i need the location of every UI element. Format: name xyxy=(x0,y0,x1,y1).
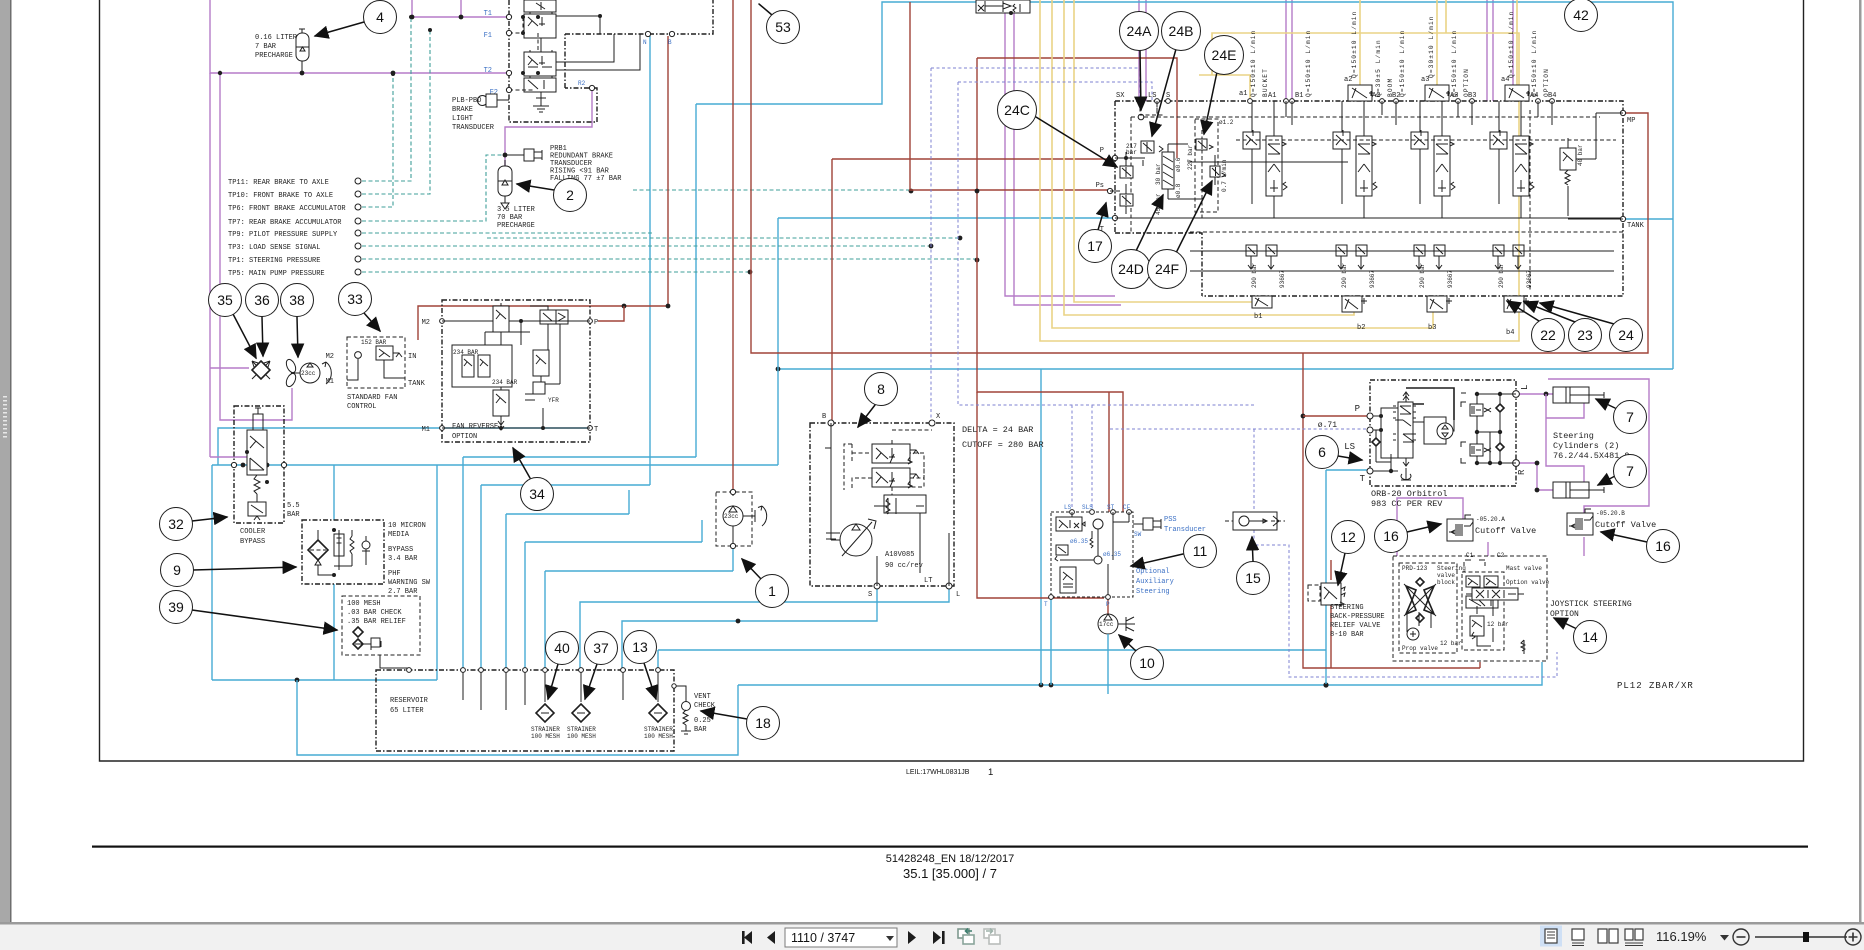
svg-text:16: 16 xyxy=(1655,538,1671,554)
joystick steering box xyxy=(1393,552,1550,661)
outlet section xyxy=(1530,110,1645,290)
svg-text:A10V085: A10V085 xyxy=(885,551,914,559)
right window edge line xyxy=(1859,0,1862,950)
svg-text:MP: MP xyxy=(1627,117,1635,125)
svg-text:STRAINER: STRAINER xyxy=(531,726,560,733)
inlet relief 45 bar xyxy=(1120,194,1133,206)
svg-text:JOYSTICK STEERING: JOYSTICK STEERING xyxy=(1550,600,1632,609)
inlet section xyxy=(1096,103,1600,296)
prev page btn xyxy=(767,931,775,944)
svg-text:Q=150±10 L/min: Q=150±10 L/min xyxy=(1305,30,1312,97)
svg-text:M2: M2 xyxy=(326,353,334,361)
svg-text:b3: b3 xyxy=(1428,324,1436,332)
svg-text:R: R xyxy=(1517,469,1527,475)
main spool 24D xyxy=(1162,152,1174,189)
brake valve assembly body xyxy=(484,0,713,122)
callout 34 xyxy=(513,448,530,478)
pressure reducing valve 53 xyxy=(976,0,1030,15)
svg-text:Q=150±10 L/min: Q=150±10 L/min xyxy=(1508,11,1515,78)
back-pressure relief valve xyxy=(1308,583,1385,639)
wire teal TP3 xyxy=(362,245,931,247)
wire teal TP1 xyxy=(362,258,977,260)
callout 15 xyxy=(1252,537,1253,561)
svg-text:BYPASS: BYPASS xyxy=(240,538,265,546)
PRB1 transducer xyxy=(503,145,622,183)
svg-text:R2: R2 xyxy=(578,80,586,87)
svg-text:TP11: REAR BRAKE TO AXLE: TP11: REAR BRAKE TO AXLE xyxy=(228,179,329,187)
svg-text:15: 15 xyxy=(1245,570,1261,586)
cutoff valve right xyxy=(1567,509,1656,535)
svg-text:STANDARD FAN: STANDARD FAN xyxy=(347,394,397,402)
wire cyan brake N line xyxy=(481,36,650,670)
steering cylinder 1 xyxy=(1553,387,1604,403)
svg-text:RESERVOIR: RESERVOIR xyxy=(390,697,429,705)
svg-text:TANK: TANK xyxy=(1627,222,1645,230)
wire cyan brake valve drop xyxy=(463,104,696,670)
svg-text:M1: M1 xyxy=(326,378,334,386)
svg-text:BAR: BAR xyxy=(694,726,707,734)
svg-text:LT: LT xyxy=(924,577,932,585)
orbitrol shock valves xyxy=(1477,394,1516,463)
wire cyan top loop to block tank xyxy=(696,2,1673,369)
svg-text:38: 38 xyxy=(289,292,305,308)
orbitrol gerotor xyxy=(1406,388,1454,420)
svg-text:36: 36 xyxy=(254,292,270,308)
svg-text:Steering: Steering xyxy=(1553,431,1594,441)
svg-text:93667: 93667 xyxy=(1369,270,1376,288)
svg-text:valve: valve xyxy=(1437,572,1455,579)
wire teal TP9 xyxy=(362,232,653,234)
svg-text:C2: C2 xyxy=(1497,552,1505,559)
svg-text:LIGHT: LIGHT xyxy=(452,115,473,123)
svg-text:17: 17 xyxy=(1087,238,1103,254)
svg-text:234 BAR: 234 BAR xyxy=(453,349,479,356)
page num box xyxy=(785,928,897,947)
svg-text:10 MICRON: 10 MICRON xyxy=(388,522,426,530)
svg-text:1110 / 3747: 1110 / 3747 xyxy=(791,931,855,945)
svg-text:23cc: 23cc xyxy=(301,370,316,377)
bottom pilot caps xyxy=(1252,296,1529,337)
svg-text:34: 34 xyxy=(529,486,545,502)
callout 24A xyxy=(1140,50,1141,110)
svg-text:STRAINER: STRAINER xyxy=(644,726,673,733)
fan blades 23cc motor xyxy=(218,71,332,420)
svg-text:4: 4 xyxy=(376,9,384,25)
wire red charge pump feed xyxy=(732,0,734,492)
svg-text:STRAINER: STRAINER xyxy=(567,726,596,733)
svg-text:CF: CF xyxy=(1123,504,1131,511)
cutoff valve left xyxy=(1447,515,1536,541)
svg-text:0.7 L/min: 0.7 L/min xyxy=(1221,159,1228,192)
svg-text:40: 40 xyxy=(554,640,570,656)
svg-text:12 bar: 12 bar xyxy=(1487,621,1509,628)
last page btn xyxy=(933,931,941,944)
svg-text:93667: 93667 xyxy=(1526,270,1533,288)
wire purple outer steering loop to right cutoff xyxy=(1548,379,1649,513)
svg-text:LS: LS xyxy=(1148,92,1156,100)
pilot supply box xyxy=(1195,119,1218,212)
wire cyan tank return horizontal xyxy=(778,368,1673,370)
svg-text:116.19%: 116.19% xyxy=(1656,929,1707,944)
svg-text:3.4 BAR: 3.4 BAR xyxy=(388,555,418,563)
orbitrol xyxy=(1318,380,1530,509)
callout 1 xyxy=(742,559,761,579)
wire purple right cutoff to joystick xyxy=(1583,537,1585,556)
svg-text:1: 1 xyxy=(988,767,993,778)
wire cyan staircase 4 xyxy=(525,520,702,670)
section 3 option xyxy=(1411,101,1455,288)
svg-text:.35 BAR RELIEF: .35 BAR RELIEF xyxy=(347,618,406,626)
svg-text:MEDIA: MEDIA xyxy=(388,531,410,539)
wire cyan center drop xyxy=(777,218,779,465)
svg-text:Q=30±10 L/min: Q=30±10 L/min xyxy=(1428,15,1435,78)
svg-text:SLS: SLS xyxy=(1082,504,1093,511)
first page btn xyxy=(744,931,752,944)
svg-text:M1: M1 xyxy=(422,426,430,434)
svg-text:IN: IN xyxy=(408,353,416,361)
callout 24C xyxy=(1036,117,1117,167)
svg-text:N: N xyxy=(643,39,647,46)
svg-text:OPTION: OPTION xyxy=(452,433,477,441)
callout 40 xyxy=(548,664,558,699)
wire yellow top caps xyxy=(1360,0,1517,85)
svg-text:OPTION: OPTION xyxy=(1543,68,1550,97)
svg-text:18: 18 xyxy=(755,715,771,731)
aux steering box xyxy=(1044,504,1133,608)
callout 53 xyxy=(759,4,772,15)
fan reverse option box xyxy=(422,300,599,442)
svg-text:ST: ST xyxy=(1107,504,1115,511)
wire purple pilot pairs top xyxy=(1139,0,1513,101)
svg-text:B: B xyxy=(822,413,826,421)
svg-text:Steering: Steering xyxy=(1136,588,1170,596)
callout 11 xyxy=(1131,554,1183,566)
accumulator 3.5 liter xyxy=(497,160,536,230)
vent check xyxy=(672,684,716,734)
callout 39 xyxy=(192,610,337,630)
23cc charge pump xyxy=(716,489,767,548)
wire red fan supply xyxy=(418,36,668,340)
top ports and labels xyxy=(1116,76,1556,125)
svg-text:LS: LS xyxy=(1344,442,1355,452)
callout 24B xyxy=(1152,49,1176,136)
svg-text:11: 11 xyxy=(1193,543,1208,559)
svg-text:30 bar: 30 bar xyxy=(1155,163,1162,185)
svg-text:9: 9 xyxy=(173,562,181,578)
svg-text:.03 BAR CHECK: .03 BAR CHECK xyxy=(347,609,402,617)
svg-text:T1: T1 xyxy=(484,10,492,18)
svg-text:100 MESH: 100 MESH xyxy=(644,733,673,740)
callout 8 xyxy=(858,405,875,427)
wire blue-dash SX pilot xyxy=(931,68,1140,423)
cooler bypass box xyxy=(231,406,300,546)
svg-text:BOOM: BOOM xyxy=(1387,78,1394,97)
orbitrol steering spool xyxy=(1398,402,1413,458)
svg-text:BAR: BAR xyxy=(287,511,300,519)
svg-text:39: 39 xyxy=(168,599,184,615)
svg-text:PRD-123: PRD-123 xyxy=(1402,565,1428,572)
svg-text:Transducer: Transducer xyxy=(1164,526,1206,534)
svg-text:100 MESH: 100 MESH xyxy=(531,733,560,740)
wire purple left cutoff riser xyxy=(1397,498,1463,556)
svg-text:290 bar: 290 bar xyxy=(1498,262,1505,288)
svg-text:3.5 LITER: 3.5 LITER xyxy=(497,206,536,214)
callout 23 xyxy=(1524,302,1575,322)
svg-text:100 MESH: 100 MESH xyxy=(567,733,596,740)
svg-text:Optional: Optional xyxy=(1136,568,1170,576)
wire blue-dash LS signal xyxy=(958,82,1254,512)
svg-text:-05.20.A: -05.20.A xyxy=(1476,516,1505,523)
wire cyan filter drop xyxy=(334,465,437,680)
wire teal pump tap xyxy=(633,189,911,191)
svg-text:Q=150±10 L/min: Q=150±10 L/min xyxy=(1451,30,1458,97)
svg-text:b4: b4 xyxy=(1506,329,1514,337)
svg-text:Q=150±10 L/min: Q=150±10 L/min xyxy=(1531,30,1538,97)
callout 35 xyxy=(233,314,256,358)
svg-text:S: S xyxy=(1166,92,1170,100)
svg-text:BYPASS: BYPASS xyxy=(388,546,413,554)
svg-text:290 bar: 290 bar xyxy=(1341,262,1348,288)
svg-text:90 cc/rev: 90 cc/rev xyxy=(885,562,923,570)
callout 4 xyxy=(315,22,364,36)
svg-text:7: 7 xyxy=(1626,463,1634,479)
callout 36 xyxy=(262,317,263,356)
wire purple steering L line xyxy=(1516,393,1556,395)
svg-text:T: T xyxy=(1044,601,1048,608)
svg-text:12: 12 xyxy=(1340,529,1356,545)
svg-text:290 bar: 290 bar xyxy=(1419,262,1426,288)
wire blue-dash priority box xyxy=(1254,530,1557,677)
wire yellow pilot 1 xyxy=(1040,0,1519,341)
svg-text:PSS: PSS xyxy=(1164,516,1177,524)
wire teal TP11 xyxy=(362,17,411,181)
orifice 24F xyxy=(1210,166,1220,177)
svg-text:8-10 BAR: 8-10 BAR xyxy=(1330,631,1364,639)
svg-text:RELIEF VALVE: RELIEF VALVE xyxy=(1330,622,1380,630)
svg-text:93667: 93667 xyxy=(1447,270,1454,288)
svg-text:23cc: 23cc xyxy=(724,513,739,520)
svg-text:TP9: PILOT PRESSURE SUPPLY: TP9: PILOT PRESSURE SUPPLY xyxy=(228,231,338,239)
svg-text:14: 14 xyxy=(1582,629,1598,645)
svg-text:YFR: YFR xyxy=(548,397,559,404)
svg-text:37: 37 xyxy=(593,640,609,656)
svg-text:Q=150±10 L/min: Q=150±10 L/min xyxy=(1351,11,1358,78)
rotated flow labels xyxy=(1250,11,1550,97)
page frame xyxy=(100,0,1804,761)
svg-text:Prop valve: Prop valve xyxy=(1402,645,1438,652)
svg-text:DELTA = 24 BAR: DELTA = 24 BAR xyxy=(962,425,1033,435)
reservoir xyxy=(376,668,674,751)
inlet unloader 30 bar xyxy=(1120,166,1133,178)
svg-text:SX: SX xyxy=(1116,92,1125,100)
svg-text:0.16 LITER: 0.16 LITER xyxy=(255,34,298,42)
svg-text:Cutoff Valve: Cutoff Valve xyxy=(1595,520,1656,530)
svg-text:COOLER: COOLER xyxy=(240,528,266,536)
PLB-PBD transducer xyxy=(452,94,509,132)
strainer 2 xyxy=(572,704,590,722)
wire cyan staircase 5 xyxy=(545,546,733,670)
svg-text:LEIL:17WHL0831JB: LEIL:17WHL0831JB xyxy=(906,769,970,776)
svg-text:LS: LS xyxy=(1064,504,1072,511)
svg-text:227 bar: 227 bar xyxy=(1187,144,1194,170)
callout 14 xyxy=(1554,618,1577,629)
wire yellow pilot 3 xyxy=(1064,0,1354,315)
svg-text:PLB-PBD: PLB-PBD xyxy=(452,97,481,105)
svg-text:-05.20.B: -05.20.B xyxy=(1596,510,1625,517)
svg-text:12 bar: 12 bar xyxy=(1440,640,1462,647)
svg-text:TP5: MAIN PUMP PRESSURE: TP5: MAIN PUMP PRESSURE xyxy=(228,270,325,278)
svg-text:CUTOFF = 280 BAR: CUTOFF = 280 BAR xyxy=(962,440,1044,450)
svg-text:51428248_EN 18/12/2017: 51428248_EN 18/12/2017 xyxy=(886,853,1014,865)
strainer 3 xyxy=(649,704,667,722)
a2 cap xyxy=(1348,85,1372,101)
svg-text:10: 10 xyxy=(1139,655,1155,671)
svg-text:ø0.8: ø0.8 xyxy=(1175,183,1182,198)
wire purple T1 net xyxy=(412,0,509,17)
svg-text:Steering: Steering xyxy=(1437,565,1466,572)
main control valve block xyxy=(1096,11,1645,337)
svg-text:23: 23 xyxy=(1577,327,1593,343)
svg-text:CHECK: CHECK xyxy=(694,702,716,710)
svg-text:T2: T2 xyxy=(484,67,492,75)
wire teal mid tap xyxy=(487,237,960,239)
svg-text:TP10: FRONT BRAKE TO AXLE: TP10: FRONT BRAKE TO AXLE xyxy=(228,192,333,200)
wire purple T2 net xyxy=(210,0,509,73)
svg-text:FAN REVERSE: FAN REVERSE xyxy=(452,423,498,431)
svg-text:TP6: FRONT BRAKE ACCUMULATOR: TP6: FRONT BRAKE ACCUMULATOR xyxy=(228,205,346,213)
callout 9 xyxy=(193,567,296,570)
svg-text:T: T xyxy=(1360,474,1366,484)
svg-text:WARNING SW: WARNING SW xyxy=(388,579,431,587)
svg-text:983 CC PER REV: 983 CC PER REV xyxy=(1371,499,1443,509)
17cc steering pump xyxy=(1098,614,1135,694)
accumulator 0.16 liter xyxy=(255,29,309,73)
svg-text:Q=150±10 L/min: Q=150±10 L/min xyxy=(1399,30,1406,97)
svg-text:7 BAR: 7 BAR xyxy=(255,43,277,51)
wire teal TP10 xyxy=(362,30,430,194)
callout 12 xyxy=(1338,553,1345,585)
next view icon (disabled) xyxy=(984,929,1000,945)
wire red back-pressure valve stub xyxy=(1330,560,1332,668)
callout 13 xyxy=(644,663,656,699)
svg-text:PRECHARGE: PRECHARGE xyxy=(255,52,293,60)
svg-text:BUCKET: BUCKET xyxy=(1262,68,1269,97)
wire red orbitrol P net xyxy=(1303,353,1480,668)
svg-text:P: P xyxy=(1100,147,1104,155)
svg-text:block: block xyxy=(1437,579,1455,586)
wire cyan tank loop right drop xyxy=(1040,369,1042,685)
svg-text:PL12 ZBAR/XR: PL12 ZBAR/XR xyxy=(1617,681,1694,691)
svg-text:P: P xyxy=(1106,601,1110,608)
view mode icons xyxy=(1540,926,1562,947)
callout 24E xyxy=(1204,72,1217,134)
svg-text:P: P xyxy=(1355,404,1360,414)
wire red Ps line xyxy=(910,2,1110,191)
next page btn xyxy=(908,931,916,944)
callout 7a xyxy=(1596,399,1615,408)
svg-text:93667: 93667 xyxy=(1279,270,1286,288)
wire red steering feed xyxy=(977,58,1177,512)
wire cyan staircase 3 xyxy=(506,490,629,670)
svg-text:F1: F1 xyxy=(484,32,492,40)
callout 24D xyxy=(1135,195,1163,253)
junction dots TP risers xyxy=(409,15,413,19)
svg-text:B: B xyxy=(668,39,672,46)
wire cyan aux steering T drop xyxy=(1050,597,1052,685)
svg-text:PHF: PHF xyxy=(388,570,401,578)
wire teal TP5 xyxy=(362,271,750,273)
wire yellow pilot 4 xyxy=(1074,0,1260,302)
svg-text:234 BAR: 234 BAR xyxy=(492,379,518,386)
wire red steering pressure xyxy=(977,392,1104,598)
orbitrol P LS T internal links xyxy=(1373,408,1398,458)
inlet 217 bar valve 24B xyxy=(1141,141,1154,153)
wire purple R2 to PRB1 and accumulator xyxy=(505,89,592,168)
svg-text:22: 22 xyxy=(1540,327,1556,343)
svg-text:Ps: Ps xyxy=(1096,182,1104,190)
svg-text:1: 1 xyxy=(768,583,776,599)
svg-text:24B: 24B xyxy=(1169,23,1194,39)
svg-text:Q=30±5 L/min: Q=30±5 L/min xyxy=(1375,39,1382,97)
svg-text:L: L xyxy=(1520,385,1530,390)
svg-text:35.1 [35.000] / 7: 35.1 [35.000] / 7 xyxy=(903,866,997,881)
callout 38 xyxy=(297,317,298,357)
PSS transducer xyxy=(1133,516,1206,538)
wire red aux P to pump xyxy=(1107,597,1109,614)
svg-text:24E: 24E xyxy=(1212,47,1237,63)
pump A10VO85 box xyxy=(810,413,960,599)
wire purple cylinder1 rod side xyxy=(1546,401,1584,418)
footer rule xyxy=(92,846,1808,848)
wire red pump B to P xyxy=(832,159,1115,423)
svg-text:VENT: VENT xyxy=(694,693,711,701)
svg-text:6: 6 xyxy=(1318,444,1326,460)
svg-text:2: 2 xyxy=(566,187,574,203)
svg-text:53: 53 xyxy=(775,19,791,35)
callout 18 xyxy=(701,711,747,719)
svg-text:BACK-PRESSURE: BACK-PRESSURE xyxy=(1330,613,1385,621)
100 mesh check box xyxy=(342,596,420,672)
wire red LS loop xyxy=(751,0,1648,353)
svg-text:BRAKE: BRAKE xyxy=(452,106,473,114)
fan drive diamond xyxy=(210,73,270,457)
wire cyan case drain S xyxy=(622,586,877,670)
svg-text:TRANSDUCER: TRANSDUCER xyxy=(452,124,495,132)
steering cylinder 2 xyxy=(1553,482,1604,498)
svg-text:24C: 24C xyxy=(1004,102,1030,118)
svg-text:M2: M2 xyxy=(422,319,430,327)
svg-text:Option valve: Option valve xyxy=(1506,579,1550,586)
svg-text:35: 35 xyxy=(217,292,233,308)
section 4 option xyxy=(1490,101,1534,288)
joystick label xyxy=(1550,600,1632,619)
wire cyan reservoir return left xyxy=(297,680,738,755)
svg-text:24D: 24D xyxy=(1118,261,1144,277)
svg-text:TP7: REAR BRAKE ACCUMULATOR: TP7: REAR BRAKE ACCUMULATOR xyxy=(228,219,342,227)
svg-text:24A: 24A xyxy=(1127,23,1153,39)
svg-text:152 BAR: 152 BAR xyxy=(361,339,387,346)
svg-text:Q=150±10 L/min: Q=150±10 L/min xyxy=(1250,30,1257,97)
svg-text:17cc: 17cc xyxy=(1099,621,1114,628)
test point list xyxy=(228,178,361,278)
callout 17 xyxy=(1098,203,1106,230)
filter 10 micron box xyxy=(302,520,431,596)
svg-text:ø0.6: ø0.6 xyxy=(1175,157,1182,172)
svg-text:ø.71: ø.71 xyxy=(1318,421,1337,430)
callout 37 xyxy=(585,664,597,699)
callout 2 xyxy=(517,184,554,190)
svg-text:b2: b2 xyxy=(1357,324,1365,332)
